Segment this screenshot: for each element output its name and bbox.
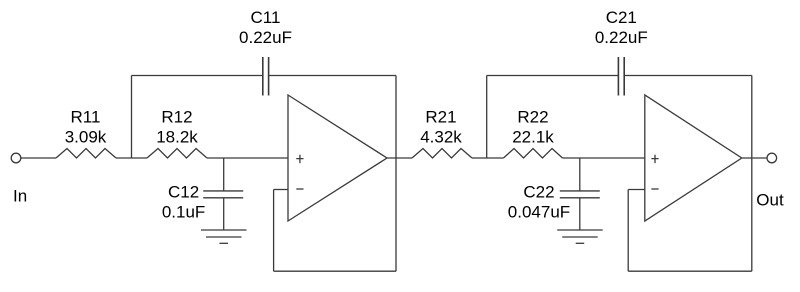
svg-text:18.2k: 18.2k bbox=[156, 128, 198, 147]
value 0.047uF bbox=[508, 203, 570, 222]
wire R11 to R12 bbox=[116, 157, 147, 159]
label In bbox=[13, 187, 27, 206]
label C22 bbox=[523, 183, 554, 202]
wire feedback left vertical stage1 bbox=[273, 190, 275, 272]
wire R21 to R22 bbox=[472, 157, 504, 159]
svg-text:4.32k: 4.32k bbox=[420, 128, 462, 147]
svg-text:C22: C22 bbox=[523, 183, 554, 202]
svg-text:R21: R21 bbox=[425, 108, 456, 127]
capacitor C12 bbox=[203, 191, 243, 198]
wire feedback bottom stage1 bbox=[274, 270, 396, 272]
svg-text:C21: C21 bbox=[606, 8, 637, 27]
resistor R12 bbox=[147, 149, 207, 159]
resistor R11 bbox=[56, 149, 116, 159]
wire R22 to op-amp U2 bbox=[563, 157, 645, 159]
wire output node vertical stage1 bbox=[395, 76, 397, 272]
wire feedback top left stage1 bbox=[132, 75, 263, 77]
node B vertical to feedback bbox=[486, 76, 488, 159]
value 0.22uF bbox=[239, 28, 292, 47]
svg-text:C11: C11 bbox=[251, 8, 281, 27]
wire minus input stage1 bbox=[274, 189, 288, 191]
svg-text:0.1uF: 0.1uF bbox=[162, 203, 205, 222]
svg-text:3.09k: 3.09k bbox=[65, 128, 107, 147]
wire feedback bottom stage2 bbox=[628, 270, 752, 272]
resistor R21 bbox=[412, 149, 472, 159]
value 22.1k bbox=[512, 128, 554, 147]
node A vertical to feedback bbox=[131, 76, 133, 159]
capacitor C11 bbox=[263, 57, 269, 96]
wire op-amp U2 output to terminal bbox=[742, 157, 767, 159]
wire feedback top left stage2 bbox=[487, 75, 619, 77]
wire op-amp U1 output to R21 bbox=[387, 157, 412, 159]
svg-text:R11: R11 bbox=[71, 108, 101, 127]
label C21 bbox=[606, 8, 637, 27]
svg-text:22.1k: 22.1k bbox=[512, 128, 554, 147]
svg-text:Out: Out bbox=[756, 191, 784, 210]
capacitor C21 bbox=[618, 57, 624, 96]
capacitor C22 bbox=[560, 191, 600, 198]
wire C22 to ground bbox=[579, 198, 581, 230]
wire input to R11 bbox=[21, 157, 56, 159]
svg-text:0.22uF: 0.22uF bbox=[595, 28, 648, 47]
label R11 bbox=[71, 108, 101, 127]
svg-text:0.22uF: 0.22uF bbox=[239, 28, 292, 47]
wire C12 junction down bbox=[223, 158, 225, 191]
wire feedback left vertical stage2 bbox=[627, 190, 629, 272]
output terminal Out bbox=[767, 153, 777, 163]
wire feedback top right stage1 bbox=[269, 75, 396, 77]
svg-text:R12: R12 bbox=[161, 108, 192, 127]
wire output node vertical stage2 bbox=[751, 76, 753, 272]
op-amp U1 bbox=[288, 95, 387, 221]
value 3.09k bbox=[65, 128, 107, 147]
ground stage1 bbox=[201, 230, 247, 243]
input terminal In bbox=[11, 153, 21, 163]
label R22 bbox=[517, 108, 548, 127]
wire minus input stage2 bbox=[628, 189, 645, 191]
label C12 bbox=[168, 183, 199, 202]
op-amp U2 bbox=[645, 95, 742, 221]
label R21 bbox=[425, 108, 456, 127]
value 4.32k bbox=[420, 128, 462, 147]
wire R12 to op-amp U1 bbox=[207, 157, 288, 159]
wire feedback top right stage2 bbox=[624, 75, 752, 77]
svg-text:C12: C12 bbox=[168, 183, 199, 202]
value 0.1uF bbox=[162, 203, 205, 222]
label R12 bbox=[161, 108, 192, 127]
ground stage2 bbox=[557, 230, 603, 243]
svg-text:0.047uF: 0.047uF bbox=[508, 203, 570, 222]
label Out bbox=[756, 191, 784, 210]
value 18.2k bbox=[156, 128, 198, 147]
svg-text:R22: R22 bbox=[517, 108, 548, 127]
wire C22 junction down bbox=[579, 158, 581, 191]
svg-text:In: In bbox=[13, 187, 27, 206]
value 0.22uF bbox=[595, 28, 648, 47]
wire C12 to ground bbox=[223, 198, 225, 230]
label C11 bbox=[251, 8, 281, 27]
resistor R22 bbox=[504, 149, 563, 159]
